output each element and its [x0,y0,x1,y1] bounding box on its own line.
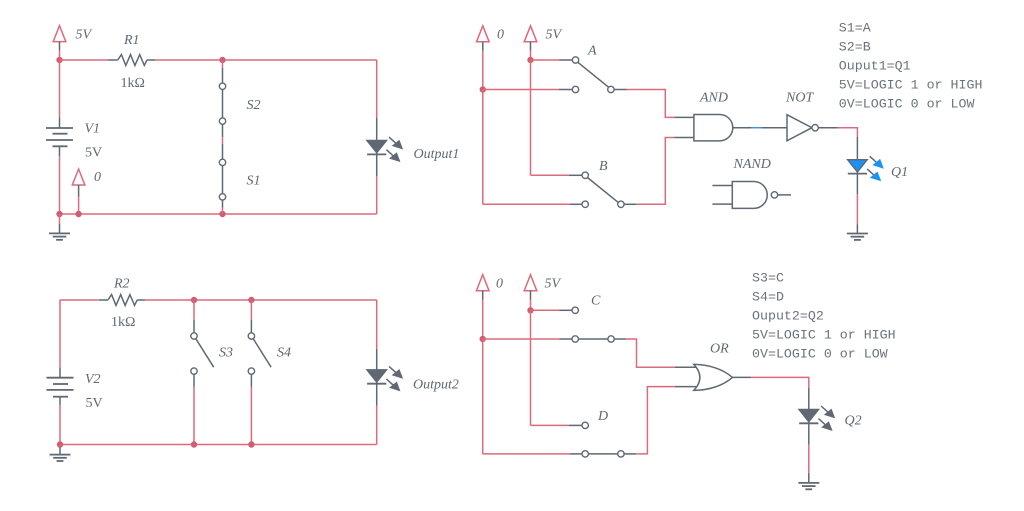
wire: 0 to C bottom throw [483,338,560,340]
svg-text:R2: R2 [113,277,130,292]
node: junction 0 at switch A row [480,86,486,92]
node: junction 0 at switch C row [480,336,486,342]
wire: D pole to OR input 2 [624,387,696,454]
svg-text:V1: V1 [85,122,101,137]
wire: 5V to A top throw [531,59,560,61]
wire: NOT output to LED Q1 [818,128,857,160]
svg-text:5V=LOGIC 1 or HIGH: 5V=LOGIC 1 or HIGH [752,328,896,343]
svg-text:5V: 5V [546,28,563,43]
LED Output2 [367,366,459,392]
power rail 0 (top-left) [72,169,101,214]
wire: 0 rail down to D [482,339,484,454]
svg-text:5V=LOGIC 1 or HIGH: 5V=LOGIC 1 or HIGH [839,78,983,93]
svg-text:0V=LOGIC 0 or LOW: 0V=LOGIC 0 or LOW [839,97,975,112]
svg-text:5V: 5V [86,396,103,411]
power rail 5V (top-right) [524,26,562,51]
node: junction V1- / ground [56,211,62,217]
wire: 0 rail drop [482,300,484,340]
node: junction top of S2 [219,57,225,63]
svg-text:Q1: Q1 [891,165,908,180]
svg-text:NOT: NOT [785,91,814,106]
svg-text:S3: S3 [219,346,233,361]
wire: LED Output2 to bottom net [376,384,378,406]
wire: S1 to bottom junction [222,200,224,207]
wire: AND output to NOT input [733,127,787,129]
svg-text:B: B [599,159,608,174]
NOT gate [785,91,818,141]
node: junction at 5V rail / R1 / V1 [56,57,62,63]
wire: R1 to switch column and LED branch [155,59,376,61]
svg-text:S4=D: S4=D [752,290,784,305]
wire: top-left corner to R2 [60,299,99,301]
node: junction bottom of S1 [219,211,225,217]
ground (top-left) [49,214,70,240]
switch S3 (open) [191,300,233,445]
svg-text:V2: V2 [85,372,101,387]
wire: 0 rail drop [482,51,484,90]
node: junction V2- / ground [57,441,63,447]
wire: left branch down to V2 [59,300,61,368]
svg-text:1kΩ: 1kΩ [111,315,135,330]
svg-text:5V: 5V [85,146,102,161]
svg-text:AND: AND [699,91,728,106]
wire: 5V rail drop [59,51,61,61]
svg-text:S2: S2 [247,98,261,113]
svg-text:S1: S1 [247,174,261,189]
wire: V1 to bottom rail [59,156,61,214]
power rail 0 (top-right) [477,26,505,51]
wire: stub from top junction into S2 [222,60,224,68]
svg-text:0: 0 [497,28,504,43]
svg-text:5V: 5V [545,277,562,292]
NAND gate (unconnected) [712,157,791,208]
node: junction 5V at switch C [527,307,533,313]
OR gate [694,342,733,391]
wire: 5V rail down to B [530,60,532,175]
note text block (bottom-right) [752,271,896,362]
LED Q2 (off) [799,406,862,431]
svg-text:D: D [597,409,608,424]
wire: left branch down to V1 [59,60,61,117]
svg-text:S1=A: S1=A [839,21,871,36]
ground (bottom-left) [50,445,71,462]
switch A (SPDT, blade to 5V) [572,44,614,93]
wire: 5V to C top throw [531,309,560,311]
svg-text:Q2: Q2 [845,414,862,429]
op AND gate U1 [694,91,733,141]
svg-text:OR: OR [710,342,729,357]
resistor R1 [109,33,156,91]
wire: LED Output1 to bottom net [376,154,378,176]
note text block (top-right) [839,21,983,112]
ground (under Q2) [798,483,819,489]
svg-text:R1: R1 [123,33,140,48]
wire: bottom net [60,213,377,215]
battery V1 [46,117,102,160]
wire: S2 to S1 [222,124,224,159]
wire: 0 to A bottom throw [483,89,559,91]
node: junction top of S3 [191,297,197,303]
resistor R2 [99,277,146,331]
switch S2 (closed) [219,83,260,124]
wire: right branch down to LED Output2 [376,300,378,349]
LED Output1 [367,137,459,162]
svg-text:Ouput1=Q1: Ouput1=Q1 [839,59,911,74]
svg-text:S2=B: S2=B [839,40,871,55]
wire: 5V rail drop to A [530,51,532,61]
svg-text:0: 0 [94,170,101,185]
svg-text:NAND: NAND [733,157,771,172]
node: junction 5V at switch A [527,57,533,63]
node: junction top of S4 [248,297,254,303]
node: junction bottom of S3 [191,441,197,447]
svg-text:C: C [591,294,601,309]
switch B (SPDT, blade to 5V) [582,159,624,208]
svg-text:Ouput2=Q2: Ouput2=Q2 [752,309,824,324]
svg-text:Output2: Output2 [413,378,459,393]
LED Q1 (lit, blue) [848,156,909,181]
ground (under Q1) [847,234,868,240]
svg-text:0: 0 [496,277,503,292]
power rail 5V (bottom-right) [524,275,561,300]
wire: junction to R1 [60,59,109,61]
wire: A pole to AND input 1 [614,90,694,118]
svg-text:S3=C: S3=C [752,271,784,286]
switch S4 (open) [248,300,291,445]
wire: OR output to LED Q2 [732,377,808,409]
wire: right branch down to LED Output1 [376,60,378,118]
power rail 0 (bottom-right) [476,275,503,300]
svg-text:S4: S4 [277,346,291,361]
svg-text:1kΩ: 1kΩ [121,76,145,91]
switch D (SPDT, blade to 0) [582,409,624,457]
wire: B pole to AND input 2 [624,138,694,205]
svg-text:Output1: Output1 [414,147,460,162]
svg-text:0V=LOGIC 0 or LOW: 0V=LOGIC 0 or LOW [752,347,888,362]
wire: bottom net [60,444,377,446]
svg-text:5V: 5V [76,28,93,43]
wire: 5V rail drop [530,300,532,311]
switch S1 (closed) [219,159,260,200]
wire: LED Q2 to ground [808,423,810,483]
node: junction 0 rail [75,211,81,217]
node: junction bottom of S4 [248,441,254,447]
wire: C pole to OR input 1 [614,339,696,367]
wire: V2 to bottom net [59,405,61,444]
switch C (SPDT, blade to 0) [572,294,614,343]
wire: LED Q1 to ground [856,174,858,234]
power rail 5V (top-left) [53,26,92,51]
battery V2 [47,368,103,411]
wire: 0 rail down to B [482,90,484,205]
wire: 5V rail down to D [530,310,532,425]
svg-text:A: A [587,44,597,59]
wire: R2 to S3/S4/LED branch [145,299,376,301]
